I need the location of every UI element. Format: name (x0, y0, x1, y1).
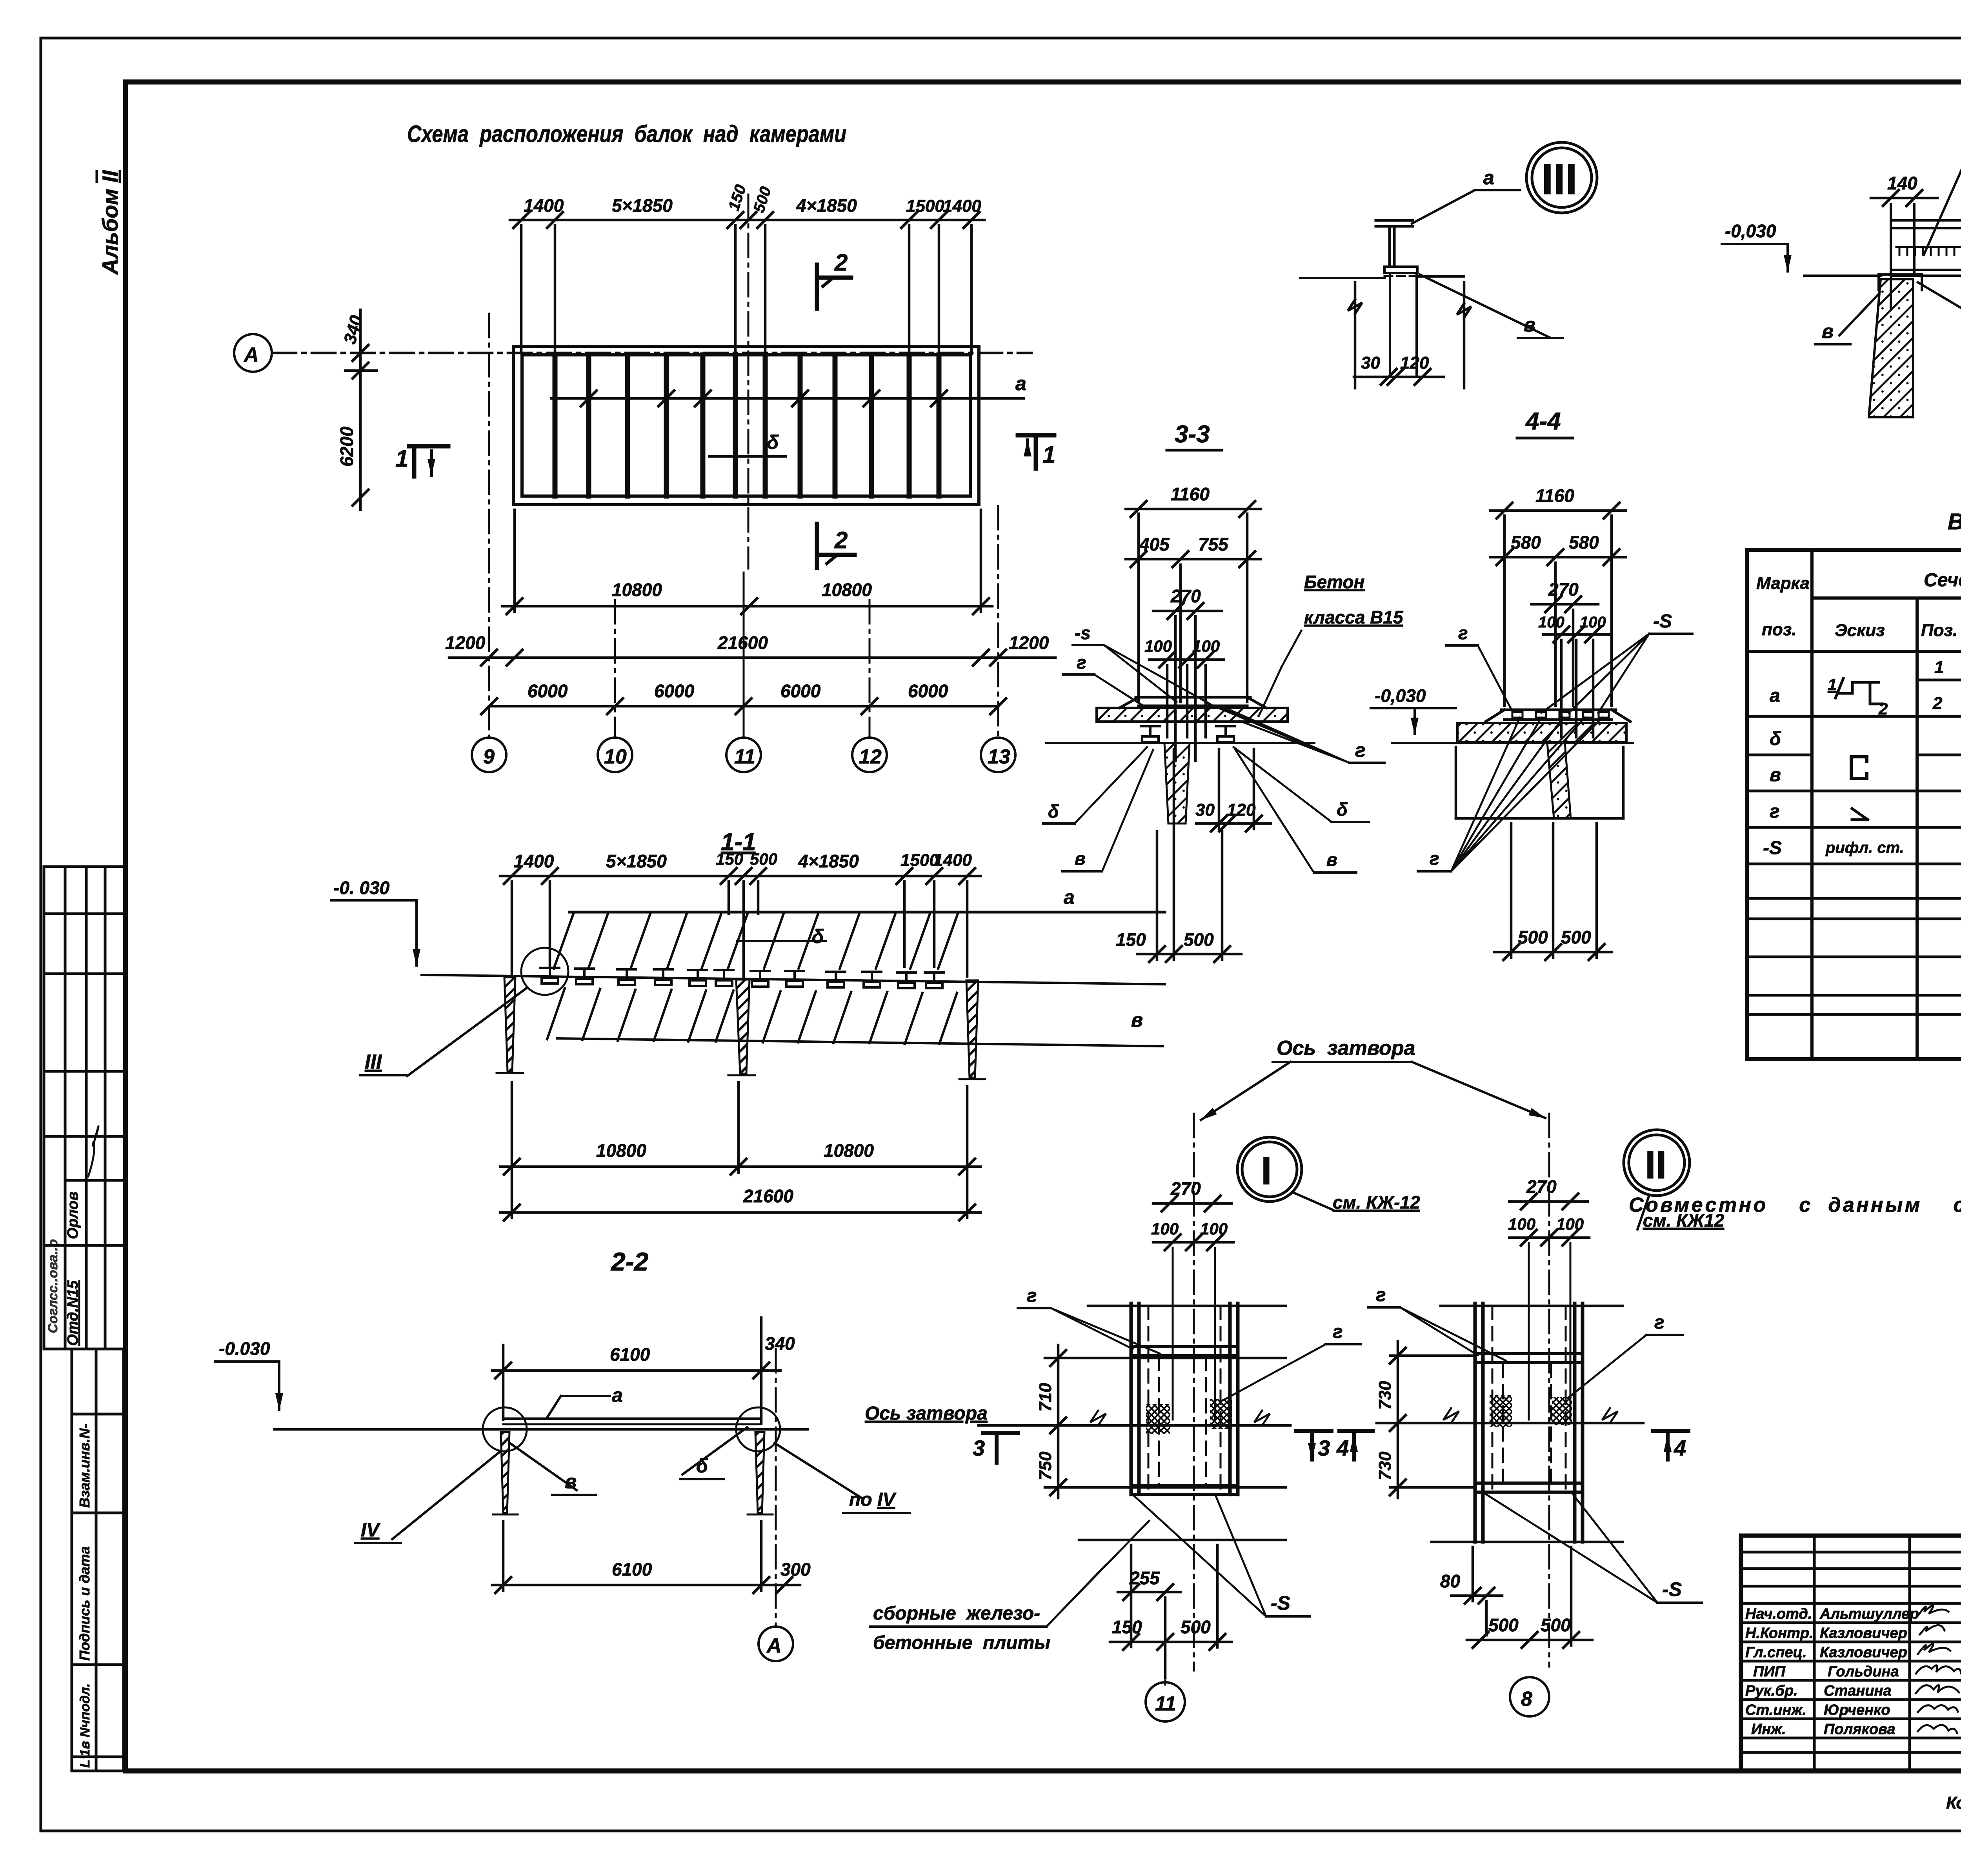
svg-text:г: г (1027, 1285, 1037, 1306)
gate II body verticals (1475, 1303, 1583, 1542)
svg-text:-S: -S (1653, 611, 1672, 632)
svg-text:500: 500 (1181, 1617, 1211, 1637)
svg-text:А: А (766, 1634, 782, 1657)
section 4-4 dim 270 (1532, 596, 1598, 612)
svg-text:5×1850: 5×1850 (612, 195, 673, 216)
section 2-2 level line (275, 1428, 808, 1431)
section 4-4 bottom dims 500/500 (1494, 823, 1612, 960)
svg-text:6000: 6000 (780, 681, 821, 701)
svg-text:δ: δ (696, 1455, 708, 1477)
section 2-2 label v (510, 1443, 577, 1490)
svg-text:710: 710 (1036, 1383, 1055, 1412)
svg-text:500: 500 (1518, 927, 1548, 947)
svg-text:30: 30 (1195, 800, 1215, 820)
section 4-4 concrete slab (1457, 723, 1626, 742)
section 4-4 wall (1547, 743, 1571, 818)
svg-text:Эскиз: Эскиз (1835, 621, 1885, 640)
section 4-4 level line (1392, 742, 1633, 744)
svg-text:1500: 1500 (906, 196, 944, 216)
section 4-4 bolts row (1512, 712, 1609, 718)
gate II extension horizontals (1390, 1306, 1623, 1542)
svg-text:1160: 1160 (1171, 484, 1210, 504)
section 1-1 wall right (966, 980, 978, 1078)
grid axis verticals (489, 314, 998, 738)
svg-text:10800: 10800 (596, 1140, 646, 1161)
detail III column (1390, 273, 1417, 377)
section 4-4 extension verticals (1504, 516, 1612, 737)
svg-text:а: а (1064, 886, 1075, 908)
section 3-3 wall (1164, 743, 1190, 823)
svg-text:Ось затвора: Ось затвора (1277, 1037, 1415, 1060)
svg-text:Совместно с данным см.: Совместно с данным см. лист КЖ 12 (1629, 1194, 1961, 1216)
section 2-2 bottom dim 6100/300 (492, 1522, 800, 1593)
beam line a with ticks (551, 391, 1024, 406)
svg-text:Схема расположения балок на: Схема расположения балок над камерами (407, 121, 846, 147)
svg-text:-0. 030: -0. 030 (333, 878, 390, 898)
section 3-3 dim 30/120 (1196, 749, 1271, 831)
section 1-1 wall middle (736, 980, 749, 1074)
svg-text:δ: δ (1337, 799, 1348, 820)
section 3-3 dim 405/755 (1126, 551, 1261, 567)
svg-text:1200: 1200 (445, 633, 486, 653)
svg-text:III: III (1541, 155, 1577, 204)
svg-text:г: г (1430, 848, 1439, 869)
gate I centerline (1193, 1114, 1195, 1671)
svg-text:в: в (1822, 320, 1834, 342)
gate I top band (1131, 1347, 1238, 1356)
gate II vertical dims 730/730 (1390, 1341, 1406, 1498)
table sketch b/v channel (1851, 757, 1867, 778)
svg-text:δ: δ (1770, 729, 1781, 749)
svg-text:4: 4 (1674, 1436, 1686, 1460)
svg-text:Гольдина: Гольдина (1828, 1663, 1899, 1680)
svg-text:3: 3 (1318, 1436, 1330, 1460)
section 3-3 extension verticals (1139, 514, 1247, 761)
detail III beam (1376, 220, 1413, 267)
gate I vertical dims 710/750 (1050, 1345, 1066, 1498)
title block signatures (1916, 1605, 1961, 1733)
svg-text:г: г (1355, 739, 1366, 761)
table outer box (1747, 550, 1961, 1059)
svg-text:150: 150 (725, 183, 749, 213)
svg-text:г: г (1458, 623, 1468, 643)
svg-text:бетонные плиты: бетонные плиты (873, 1632, 1050, 1653)
section 1-1 bottom dims 10800s (500, 1082, 980, 1220)
section 4-4 under-box (1456, 747, 1623, 818)
detail circle I (1237, 1137, 1302, 1202)
svg-text:Альтшуллер: Альтшуллер (1819, 1606, 1919, 1622)
svg-text:300: 300 (780, 1559, 811, 1580)
svg-text:Казловичер: Казловичер (1820, 1644, 1907, 1661)
svg-text:Копир. Лаврухина: Копир. Лаврухина (1946, 1793, 1961, 1812)
svg-text:405: 405 (1139, 534, 1170, 554)
grid circle A (234, 334, 272, 372)
detail IV weld ticks (1896, 247, 1961, 255)
left margin stamp table lower strip (72, 1349, 124, 1771)
detail IV level line (1804, 274, 1881, 277)
detail IV label v (1839, 294, 1879, 335)
gate II inner dashed verticals (1492, 1306, 1566, 1490)
svg-text:1: 1 (1934, 658, 1944, 677)
svg-text:500: 500 (1488, 1615, 1519, 1635)
section marker 3 left (983, 1433, 1018, 1463)
svg-text:120: 120 (1227, 800, 1256, 820)
svg-text:L'1в Nчподл.: L'1в Nчподл. (78, 1683, 93, 1768)
svg-text:в: в (1326, 849, 1337, 870)
svg-text:100: 100 (1508, 1215, 1535, 1233)
svg-text:1: 1 (1042, 442, 1055, 468)
svg-text:3-3: 3-3 (1175, 421, 1210, 448)
section marker 4 right (1653, 1431, 1688, 1460)
svg-text:в: в (1131, 1009, 1143, 1031)
svg-text:Юрченко: Юрченко (1824, 1702, 1890, 1718)
section 1-1 lower slanted plates (547, 988, 957, 1044)
svg-text:ПИП: ПИП (1753, 1663, 1786, 1680)
svg-text:21600: 21600 (743, 1186, 793, 1206)
svg-text:100: 100 (1151, 1220, 1179, 1238)
svg-text:см. КЖ-12: см. КЖ-12 (1333, 1192, 1420, 1212)
svg-text:6000: 6000 (528, 681, 568, 701)
svg-text:270: 270 (1170, 586, 1201, 606)
section 4-4 pedestal plate (1486, 710, 1630, 722)
svg-text:6000: 6000 (908, 681, 948, 701)
svg-text:13: 13 (988, 745, 1010, 768)
svg-text:δ: δ (1048, 801, 1059, 822)
section 3-3 pedestal top plate (1120, 697, 1266, 708)
svg-text:I: I (1261, 1149, 1272, 1193)
svg-text:г: г (1770, 801, 1780, 822)
svg-text:3: 3 (973, 1436, 985, 1460)
svg-text:10: 10 (604, 745, 627, 768)
svg-text:2-2: 2-2 (610, 1247, 649, 1276)
svg-text:поз.: поз. (1762, 620, 1796, 639)
section marker 1 left (409, 446, 448, 476)
grid circles 9..13 (472, 738, 1015, 772)
svg-text:4: 4 (1336, 1436, 1349, 1460)
svg-text:Инж.: Инж. (1751, 1721, 1786, 1738)
gate I bottom dim 255 (1118, 1545, 1181, 1678)
section 1-1 slanted beams above bearing (554, 914, 958, 969)
gate I dim 270 (1153, 1196, 1232, 1211)
gate II bottom band (1475, 1483, 1583, 1492)
svg-text:в: в (1770, 765, 1781, 785)
svg-text:10800: 10800 (824, 1140, 874, 1161)
svg-text:1160: 1160 (1535, 485, 1574, 506)
svg-text:в: в (1075, 848, 1086, 869)
svg-text:II: II (1645, 1143, 1667, 1187)
section 3-3 bottom dims 150/500 (1137, 749, 1241, 962)
detail IV montage seam label (1918, 282, 1961, 323)
plan centerline vertical (748, 195, 749, 569)
table column lines (1812, 550, 1961, 1059)
gate II bottom dims 500/500 (1467, 1547, 1592, 1648)
svg-text:100: 100 (1200, 1220, 1228, 1238)
svg-text:а: а (1483, 167, 1494, 189)
svg-text:4×1850: 4×1850 (796, 195, 857, 216)
svg-text:Полякова: Полякова (1824, 1721, 1896, 1738)
gate I bottom dims 150/500 (1110, 1545, 1232, 1650)
svg-text:Поз.: Поз. (1921, 621, 1957, 640)
svg-text:6000: 6000 (654, 681, 695, 701)
svg-text:-S: -S (1271, 1592, 1290, 1614)
svg-text:в: в (1524, 314, 1535, 336)
svg-text:Ось затвора: Ось затвора (865, 1403, 988, 1424)
svg-text:сборные железо-: сборные железо- (873, 1603, 1040, 1624)
table sketch a (1835, 678, 1883, 704)
section 2-2 axis to circle A (775, 1349, 777, 1627)
section 1-1 top dim line (500, 868, 980, 976)
svg-text:А: А (243, 344, 259, 366)
svg-text:1: 1 (1828, 675, 1837, 694)
detail IV dim 140 (1871, 190, 1937, 206)
svg-text:340: 340 (765, 1333, 795, 1354)
svg-text:Бетон: Бетон (1304, 572, 1364, 592)
gate I inner dashed verticals (1148, 1306, 1221, 1492)
table sketch g angle (1852, 809, 1868, 820)
section 4-4 dim 1160 (1490, 503, 1626, 518)
svg-text:-s: -s (1075, 623, 1091, 643)
svg-text:270: 270 (1526, 1176, 1557, 1197)
section 1-1 bearing I-feet (540, 968, 559, 983)
svg-text:100: 100 (1580, 614, 1606, 631)
svg-text:30: 30 (1361, 353, 1380, 373)
svg-text:11: 11 (734, 745, 755, 768)
left margin stamp table upper grid (44, 867, 126, 1349)
plan beams (555, 355, 939, 496)
svg-text:6100: 6100 (612, 1559, 652, 1580)
axis A dash-dot line (273, 352, 1031, 354)
svg-text:6100: 6100 (610, 1344, 650, 1365)
gate II centerline (1548, 1114, 1550, 1667)
svg-text:Н.Контр.: Н.Контр. (1745, 1625, 1814, 1641)
svg-text:-0.030: -0.030 (219, 1338, 270, 1359)
title block role names (1745, 1606, 1919, 1738)
svg-text:по IV: по IV (849, 1489, 897, 1510)
gate I bottom band (1131, 1485, 1238, 1494)
section marker 3 right (1296, 1431, 1332, 1460)
svg-text:580: 580 (1569, 532, 1599, 553)
gate I body verticals (1131, 1303, 1238, 1494)
section marker 2 bottom (817, 524, 855, 568)
plan lower dims 6000x4 (481, 698, 1006, 714)
svg-text:755: 755 (1198, 534, 1229, 554)
svg-text:1400: 1400 (943, 196, 981, 216)
plan rectangle outer (513, 346, 979, 505)
section marker 1 right (1018, 435, 1054, 469)
svg-text:г: г (1376, 1285, 1386, 1305)
svg-text:1400: 1400 (933, 851, 972, 870)
svg-text:150: 150 (1116, 929, 1146, 950)
svg-text:150: 150 (716, 850, 743, 868)
svg-text:а: а (612, 1384, 623, 1406)
section marker 4 left (1339, 1431, 1373, 1460)
svg-text:Альбом II: Альбом II (98, 170, 122, 275)
table header lines (1747, 598, 1961, 651)
svg-text:10800: 10800 (612, 580, 662, 600)
svg-text:Отд.N15: Отд.N15 (65, 1280, 81, 1346)
section 2-2 walls (501, 1432, 509, 1513)
plan lower dims 10800x2 (502, 510, 992, 614)
svg-text:Взам.инв.N-: Взам.инв.N- (76, 1424, 93, 1508)
section 1-1 beam top line a (569, 911, 1165, 914)
gate I circle 11 (1164, 1681, 1166, 1685)
svg-text:Ведомость элементов: Ведомость элементов (1948, 509, 1961, 534)
gate I center verticals (1173, 1248, 1215, 1420)
svg-text:5×1850: 5×1850 (606, 851, 667, 871)
svg-text:2: 2 (1932, 694, 1943, 713)
label b in plan (709, 455, 786, 458)
section 3-3 dim 100/100 (1149, 652, 1224, 667)
svg-text:270: 270 (1548, 579, 1579, 600)
gate I dim 100/100 (1153, 1234, 1233, 1250)
section 1-1 lower line v (557, 1038, 1163, 1046)
gate I extension horizontals (1045, 1306, 1286, 1540)
svg-text:500: 500 (750, 850, 777, 868)
section 2-2 top dim 6100/340 (492, 1318, 780, 1423)
leader to gate I axis (1201, 1062, 1290, 1120)
svg-text:500: 500 (1541, 1615, 1571, 1635)
section 2-2 beam line a (503, 1418, 760, 1420)
table row lines (1747, 680, 1961, 1014)
svg-text:270: 270 (1170, 1178, 1201, 1199)
section 2-2 label b right (682, 1427, 747, 1474)
gate I axis horizontal (979, 1424, 1290, 1427)
svg-text:11: 11 (1155, 1692, 1176, 1715)
svg-text:120: 120 (1400, 353, 1429, 373)
section marker 2 top (817, 265, 851, 309)
section 1-1 bearing level line (422, 975, 1165, 984)
svg-text:рифл. ст.: рифл. ст. (1825, 839, 1904, 856)
svg-text:Соглсс..ова..о: Соглсс..ова..о (45, 1239, 60, 1333)
svg-text:-0,030: -0,030 (1725, 221, 1776, 241)
svg-text:Марка: Марка (1756, 574, 1810, 593)
section 3-3 dim 270 (1153, 603, 1222, 619)
detail III label v (1420, 274, 1549, 337)
svg-text:4-4: 4-4 (1525, 408, 1561, 435)
detail III bearing plate (1384, 267, 1417, 273)
svg-text:г: г (1654, 1312, 1664, 1333)
svg-text:2: 2 (834, 249, 848, 276)
svg-text:2: 2 (834, 527, 848, 553)
svg-text:IV: IV (361, 1519, 381, 1541)
detail III level line (1300, 277, 1384, 279)
detail III left vertical dim with breaks (1348, 282, 1471, 388)
plan top dimension line (510, 212, 984, 228)
gate II dim 270 (1509, 1194, 1588, 1209)
svg-text:1: 1 (395, 445, 408, 472)
section 1-1 detail circle III (521, 948, 568, 995)
svg-text:-S: -S (1662, 1578, 1682, 1600)
title block signature grid (1741, 1536, 1961, 1771)
gate II circle 8 (1510, 1677, 1549, 1716)
svg-text:500: 500 (750, 185, 775, 215)
svg-text:6200: 6200 (337, 426, 357, 467)
svg-text:150: 150 (1112, 1617, 1142, 1637)
svg-text:г: г (1077, 652, 1086, 673)
svg-text:730: 730 (1375, 1381, 1395, 1410)
detail IV beam channel (1891, 204, 1961, 310)
gate II top band (1475, 1354, 1583, 1363)
svg-text:340: 340 (340, 313, 366, 346)
gate II axis horizontal (1377, 1422, 1643, 1425)
svg-text:80: 80 (1440, 1571, 1461, 1591)
svg-text:класса В15: класса В15 (1304, 607, 1404, 627)
svg-text:500: 500 (1561, 927, 1591, 947)
svg-text:1200: 1200 (1009, 633, 1049, 653)
section 1-1 wall left (504, 977, 515, 1071)
svg-text:Рук.бр.: Рук.бр. (1745, 1683, 1798, 1699)
svg-text:Гл.спец.: Гл.спец. (1745, 1644, 1807, 1661)
gate II center verticals (1529, 1243, 1570, 1420)
section 2-2 label IV left (392, 1451, 501, 1539)
detail III circle (1526, 142, 1597, 213)
svg-text:2: 2 (1878, 700, 1888, 718)
plan left vertical dim (345, 310, 377, 510)
svg-text:730: 730 (1375, 1451, 1395, 1480)
section 3-3 dim 1160 (1126, 501, 1261, 517)
detail IV wall cap (1879, 274, 1922, 290)
section 4-4 dim 100/100 (1543, 627, 1610, 642)
svg-text:Нач.отд.: Нач.отд. (1745, 1606, 1812, 1622)
svg-text:100: 100 (1144, 637, 1172, 655)
svg-text:100: 100 (1556, 1215, 1584, 1233)
svg-text:1400: 1400 (524, 195, 564, 216)
svg-text:580: 580 (1511, 532, 1541, 553)
plan lower dims 1200/21600/1200 (449, 650, 1055, 665)
svg-text:-0,030: -0,030 (1375, 685, 1426, 706)
gate I crosshatch spots (1146, 1404, 1170, 1434)
svg-text:750: 750 (1036, 1451, 1055, 1480)
svg-text:4×1850: 4×1850 (798, 851, 859, 871)
section 2-2 label po IV (775, 1443, 863, 1499)
svg-text:100: 100 (1538, 614, 1564, 631)
svg-text:10800: 10800 (822, 580, 872, 600)
svg-text:Ст.инж.: Ст.инж. (1745, 1702, 1806, 1718)
detail circle II (1624, 1130, 1690, 1196)
svg-text:255: 255 (1129, 1568, 1160, 1588)
leader to gate II axis (1412, 1062, 1545, 1118)
svg-text:а: а (1015, 373, 1026, 394)
detail IV wall (1869, 279, 1913, 417)
svg-text:а: а (1770, 685, 1780, 706)
plan top extension lines (521, 225, 971, 354)
detail III dim 30/120 (1354, 369, 1444, 385)
svg-text:500: 500 (1184, 929, 1214, 950)
svg-text:Сечения: Сечения (1924, 570, 1961, 591)
section 4-4 dim 580/580 (1490, 549, 1626, 565)
svg-text:Казловичер: Казловичер (1820, 1625, 1907, 1641)
svg-text:г: г (1333, 1322, 1343, 1342)
svg-text:8: 8 (1521, 1688, 1532, 1711)
section 3-3 level line (1046, 742, 1314, 744)
section 1-1 label b leader (737, 940, 826, 942)
svg-text:Подпись и дата: Подпись и дата (76, 1546, 93, 1661)
svg-text:9: 9 (483, 745, 495, 768)
gate II dim 100/100 (1509, 1230, 1589, 1245)
section 2-2 bearing circles (483, 1407, 527, 1451)
section 3-3 bearing feet (1141, 726, 1160, 742)
gate II crosshatch spots (1490, 1395, 1512, 1427)
svg-text:III: III (365, 1051, 382, 1073)
svg-text:δ: δ (767, 431, 779, 453)
gate II bottom dim 80 (1451, 1547, 1502, 1635)
svg-text:Станина: Станина (1824, 1683, 1892, 1699)
svg-text:140: 140 (1887, 173, 1917, 193)
svg-text:в: в (565, 1471, 577, 1492)
svg-text:12: 12 (859, 745, 882, 768)
svg-text:Орлов: Орлов (65, 1191, 81, 1239)
svg-text:1400: 1400 (514, 851, 554, 871)
